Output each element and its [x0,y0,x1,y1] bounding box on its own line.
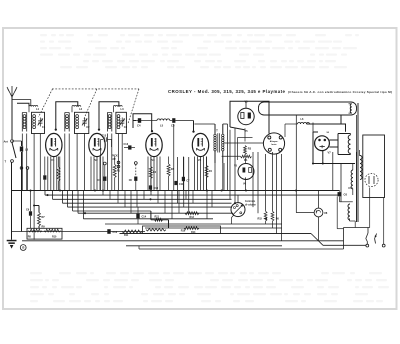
wires T leads [214,124,216,134]
svg-text:C3: C3 [124,125,128,129]
node speaker terminal [279,148,282,151]
antenna [7,86,17,97]
wire staple V1 grid to L2 [56,102,78,129]
ghost bleed-through text [30,34,389,302]
svg-text:C13: C13 [124,143,129,146]
svg-text:C2: C2 [86,125,90,129]
svg-text:di volume: di volume [245,204,256,206]
wire T to Rh [222,155,241,157]
tube V3 [146,133,162,156]
tube V5 [238,108,254,124]
wire [237,138,239,161]
resistor R15 [264,211,267,221]
svg-text:C5: C5 [171,124,175,128]
svg-text:V3: V3 [151,158,155,162]
wire [12,140,22,142]
wire T to speaker [224,142,264,144]
resistor pack box R8/R10 [27,228,62,239]
resistor R2 [149,167,152,179]
svg-text:V8: V8 [324,211,328,215]
tube V6 [238,164,254,180]
wire [173,124,175,191]
tube V4 [192,133,208,156]
node plug terminal right [382,244,385,247]
wire bottom long 249 [139,248,344,250]
wire staple V3 grid (wide, lower) [133,114,152,132]
wires field coil [285,123,298,125]
variable capacitor C1 [38,120,42,122]
dashed gang diagonal [128,89,139,124]
potentiometer volume [231,203,245,217]
primary winding column L1 [21,113,23,132]
wires transformer [359,150,361,156]
wire V4 plate to T [195,123,215,125]
svg-text:Rh: Rh [244,159,248,162]
svg-text:C10: C10 [154,187,159,190]
svg-text:R11: R11 [124,234,129,237]
capacitor C4 [136,120,138,122]
coil top L3 [113,106,122,107]
node speaker terminal [268,136,271,139]
wire output transformer side [340,164,342,202]
svg-text:lante: lante [271,143,277,146]
node Ant terminal [11,140,14,143]
wire capsule to transformer [356,115,358,156]
wire field coil right [307,115,346,132]
wire box around V5 [230,101,269,133]
svg-text:C15: C15 [102,134,107,137]
capacitor C5 [170,120,173,122]
svg-text:Controllo: Controllo [245,200,256,203]
svg-text:C1: C1 [42,125,46,129]
power transformer core [356,152,358,222]
wire AC risers [369,188,371,228]
speaker Altoparlante [263,133,284,154]
component can [363,135,385,198]
wire antenna to L1 [12,99,31,101]
svg-text:C11: C11 [179,183,184,186]
wire buses [45,194,341,196]
capacitor C7 [182,177,185,181]
wire R7 top [34,206,39,229]
node terminal C6 [103,162,106,165]
coil box L2/C2 [75,112,89,133]
svg-text:C6: C6 [344,193,348,197]
svg-text:C13: C13 [113,231,118,234]
wire ground drop [11,163,13,240]
node pickup terminals [117,161,120,164]
resistor R7 [38,213,41,227]
resistor R1 [113,165,116,178]
output transformer winding [348,135,350,153]
node speaker terminal [268,148,271,151]
wire V7 enclosure [313,132,355,164]
capacitor C8 [134,177,137,181]
capacitor C15 [101,139,104,141]
winding in capsule [350,104,352,113]
wire to switch with diagonal [120,233,312,235]
svg-text:L5: L5 [160,124,164,128]
node pickup terminal [134,162,137,165]
dashed gang diagonal [39,89,53,117]
wire antenna down [11,97,13,139]
capacitor C13b [107,229,110,234]
svg-text:R16: R16 [181,230,186,233]
ballast box R16 [143,226,221,233]
variable capacitor C3 [120,120,124,122]
winding secondary top [360,156,362,180]
capacitor C13 [124,147,128,149]
node speaker terminal [279,136,282,139]
tube V2 [89,133,105,156]
wire [146,120,157,122]
svg-text:C4: C4 [137,124,141,128]
resistor R4 [205,166,208,178]
capacitor C9 [29,211,32,215]
resistor Rh [241,155,252,158]
variable capacitor C2 [82,120,86,122]
wire pot bottom [232,215,235,218]
svg-text:T: T [216,129,218,133]
switch power pole 2 lever [374,239,377,244]
wire main bus [12,190,340,192]
coil box L3/C3 [116,112,127,133]
capacitor C11 [174,181,177,185]
wire droppers [22,134,206,191]
svg-text:R12: R12 [155,215,160,218]
wire bus corners [45,191,83,219]
dashed gang diagonal [84,89,97,119]
wire V4 grid cap [193,121,195,133]
wire staple V2 grid to L3 [99,102,119,129]
capacitor C14 [136,214,139,219]
svg-text:V5: V5 [244,100,248,104]
coil box L1/C1 [32,112,45,133]
node terminals [20,167,23,170]
primary winding column L3 [106,113,108,132]
svg-text:R13: R13 [190,216,195,219]
resistor under V1 [57,167,60,181]
wire R12 line corners [151,211,169,228]
capacitor under V1 [43,175,46,179]
resistor R11 [122,230,142,233]
field coil [298,123,310,124]
winding secondary bottom [348,204,350,220]
coil L5 [157,119,170,121]
svg-text:V1: V1 [51,158,55,162]
junction dots [59,189,61,191]
svg-text:V4: V4 [198,158,202,162]
resistor R12 [155,218,163,221]
svg-text:Altopar-: Altopar- [270,140,279,143]
svg-text:R15: R15 [258,218,263,221]
tube V1 [46,133,62,156]
node chassis mark [20,245,26,251]
wire V6 cathode drop [245,177,247,190]
wire [318,217,320,241]
capacitor C16 [21,141,23,146]
node T terminal [11,160,14,163]
socket (dashed) V8 [365,173,378,186]
wire comb [103,191,212,219]
svg-text:Ant: Ant [4,140,8,144]
svg-text:V7: V7 [328,151,332,155]
resistor R13 [185,212,199,215]
coil top L1 [29,106,38,107]
dashed gang line [52,88,139,90]
wire [134,120,137,122]
capacitor C6 [339,191,341,192]
wire antenna feed [17,103,29,106]
resistor R6 [271,211,274,221]
ground earth [7,240,17,242]
svg-text:UP:: UP: [112,158,116,161]
svg-text:V2: V2 [94,158,98,162]
tube V7 [315,136,330,151]
resistor R3 [167,164,170,176]
primary winding column L2 [64,113,66,132]
resistor R3 [244,146,247,155]
svg-text:C14: C14 [142,216,147,219]
chassis capsule [259,102,357,115]
secondary winding L3 [117,115,120,118]
resistor R14 [184,227,199,230]
coil top L2 [72,106,81,107]
switch power pole 1 [366,244,369,247]
pilot lamp V8 [314,208,323,217]
capacitor C10 [149,185,152,189]
winding left [351,170,353,189]
wire pot top [237,195,239,203]
capacitor C6 [104,165,106,176]
svg-text:R10: R10 [52,236,57,239]
switch lever [12,143,16,159]
secondary winding L1 [33,115,36,118]
wires V7 to transformer bracket [329,134,350,155]
secondary winding L2 [76,115,79,118]
svg-text:(Chassis 6A A.C. con elettrodi: (Chassis 6A A.C. con elettrodinamico Cro… [288,90,392,94]
svg-text:CROSLEY - Mod. 305, 315, 325,: CROSLEY - Mod. 305, 315, 325, 345 e Play… [168,89,286,94]
wire box1 deep dropper [33,191,35,240]
